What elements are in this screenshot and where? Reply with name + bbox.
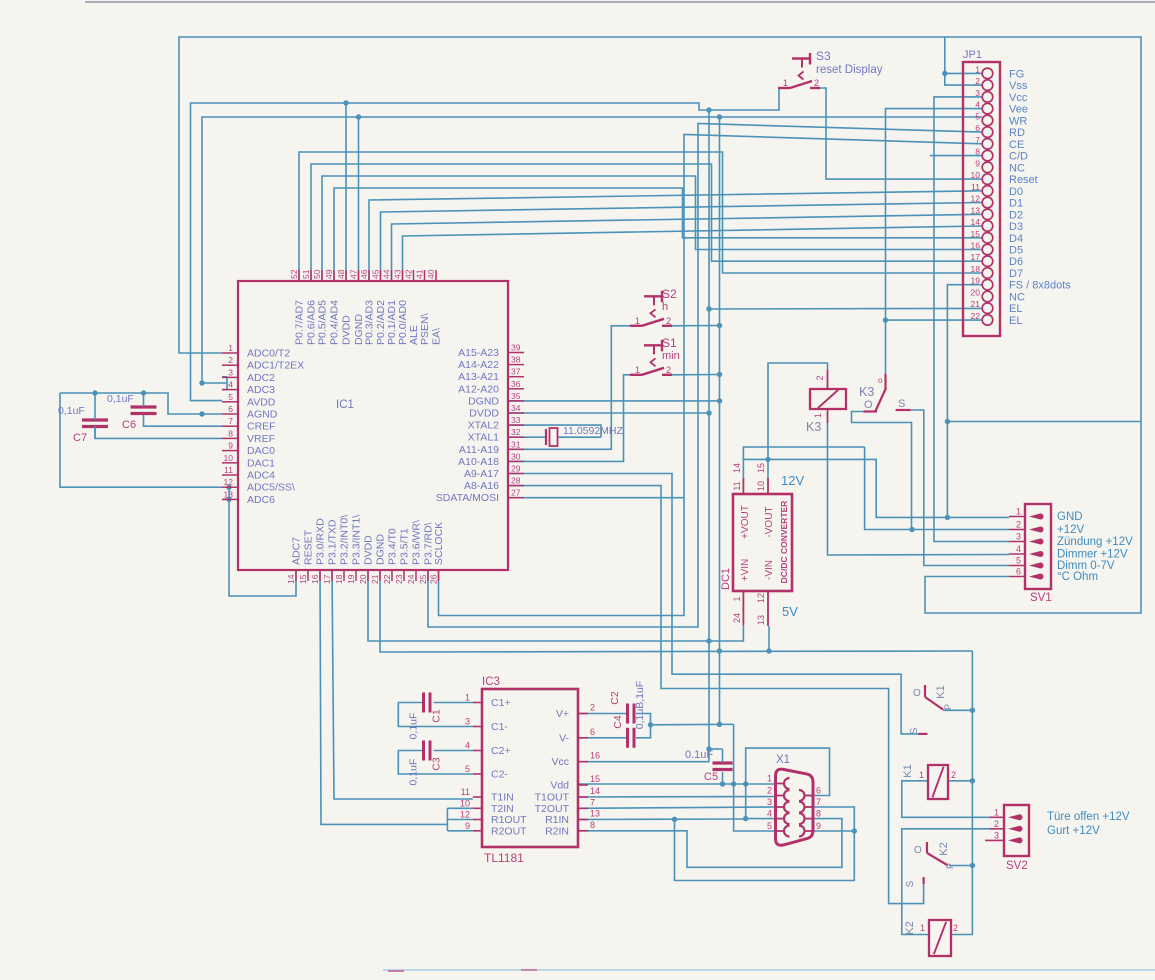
wire D1 net: IC1 riser x380.5 rail to JP1 pin12: [381, 203, 983, 282]
IC1 pin 33 stub: [508, 424, 524, 426]
switch S3 pin1 terminal: [778, 87, 790, 89]
svg-text:Vss: Vss: [1009, 80, 1028, 92]
wire C3 loop: pin4 line, cap, left loop to pin5 line: [434, 750, 473, 752]
wire outer U: X1 pin7 right, down x854.3, left y880.5, up x674.5 to pin13 line: [675, 807, 855, 881]
svg-text:2: 2: [666, 316, 671, 326]
svg-text:P3.6/WR\: P3.6/WR\: [411, 520, 423, 565]
svg-text:6: 6: [1016, 567, 1021, 577]
svg-text:47: 47: [349, 269, 359, 279]
JP1 pin 18 circle: [982, 268, 993, 279]
IC1 pin 34 stub: [508, 412, 524, 414]
svg-text:42: 42: [404, 269, 414, 279]
svg-text:2: 2: [953, 923, 958, 933]
svg-text:0,1uF: 0,1uF: [107, 393, 134, 405]
IC3 pin 15 stub: [578, 784, 588, 786]
svg-text:17: 17: [322, 574, 332, 584]
svg-text:29: 29: [511, 464, 521, 474]
svg-text:S3: S3: [816, 49, 831, 63]
relay coil K3 body: [810, 389, 846, 409]
svg-text:38: 38: [511, 355, 521, 365]
svg-text:3: 3: [994, 830, 999, 840]
svg-text:RESET: RESET: [303, 529, 315, 565]
junction dot DGND rail top of DGND vertical: [717, 114, 722, 119]
IC3 pin 5 stub: [473, 773, 482, 775]
svg-text:Türe offen +12V: Türe offen +12V: [1047, 811, 1130, 823]
wire D7 net: IC1 pin52 riser, rail y152, down x722.5, to JP1 pin18: [299, 152, 982, 281]
svg-text:IC1: IC1: [336, 399, 354, 411]
svg-text:RD: RD: [1009, 127, 1025, 139]
relay contact K1 S tick: [919, 733, 928, 735]
relay coil K2 body: [929, 920, 951, 956]
svg-text:C1: C1: [431, 709, 443, 723]
switch S1 plunger stem: [653, 345, 655, 354]
svg-text:33: 33: [511, 415, 521, 425]
wire K1S net: IC1 pin29 line right, down x=672, across y674, down to K1 S terminal: [508, 474, 919, 734]
svg-text:D5: D5: [1009, 245, 1023, 257]
wire S1 pin2 line to DGND vertical: [672, 374, 720, 376]
relay coil K1 body: [928, 765, 948, 799]
IC1 pin 28 stub: [508, 485, 524, 487]
svg-text:2: 2: [666, 365, 671, 375]
svg-text:Gurt +12V: Gurt +12V: [1047, 825, 1100, 837]
IC1 pin 40 top stub: [435, 270, 437, 281]
IC1 pin 4 stub: [222, 389, 238, 391]
svg-text:46: 46: [359, 269, 369, 279]
IC1 pin 46 top stub: [368, 270, 370, 281]
svg-text:Vcc: Vcc: [1009, 92, 1028, 104]
junction dot DGND x IC1 pin35 DGND line: [717, 398, 722, 403]
X1 pin 2 arc: [784, 790, 790, 801]
wire GND line y459: from x744 right to x876.2, down to SV1 pin1 line: [744, 459, 1009, 517]
svg-text:V-: V-: [559, 732, 569, 744]
svg-text:5V: 5V: [782, 604, 798, 619]
X1 pin 3 arc: [784, 802, 790, 813]
svg-text:14: 14: [590, 786, 600, 796]
svg-text:VREF: VREF: [247, 433, 275, 445]
svg-text:40: 40: [426, 269, 436, 279]
junction dot pin13 line x outer U vertical: [672, 817, 677, 822]
svg-text:4: 4: [228, 380, 233, 390]
IC1 pin 22 bottom stub: [391, 570, 393, 581]
svg-text:JP1: JP1: [963, 49, 982, 61]
svg-text:C5: C5: [704, 771, 718, 783]
wire IC3 input bracket x447.4 joining pins 10 12 9: [446, 808, 448, 831]
svg-text:21: 21: [971, 299, 981, 309]
svg-text:T1OUT: T1OUT: [535, 792, 570, 804]
IC1 pin 19 bottom stub: [355, 570, 357, 581]
junction dot AGND line x DGND left vertical: [199, 411, 204, 416]
svg-text:2: 2: [767, 786, 772, 796]
svg-text:P3.3/INT1\: P3.3/INT1\: [351, 515, 363, 565]
wire SV2 pin2 line left, down x901.8 to K2 coil pin1, branch to K2 S: [902, 829, 990, 935]
svg-text:CE: CE: [1009, 139, 1024, 151]
svg-text:28: 28: [511, 476, 521, 486]
svg-text:Reset: Reset: [1009, 174, 1038, 186]
X1 pin 5 arc: [784, 826, 790, 837]
junction dot FS vertical x spur line y421.5: [945, 419, 950, 424]
IC3 pin 2 stub: [578, 713, 588, 715]
svg-text:ADC2: ADC2: [247, 372, 275, 384]
IC1 pin 37 stub: [508, 376, 524, 378]
svg-text:1: 1: [920, 923, 925, 933]
svg-text:+VIN: +VIN: [740, 559, 751, 582]
wire K3 contact S wire: right, down x=923.8 to SV1 pin5 Dimm line: [911, 410, 1009, 566]
svg-text:37: 37: [511, 367, 521, 377]
svg-text:S: S: [905, 880, 916, 887]
IC1 pin 36 stub: [508, 388, 524, 390]
svg-text:K2: K2: [938, 842, 950, 855]
wire K3 coil pin1 down x827.5 then right y555 to SV1 pin4 Dimmer line: [828, 423, 1010, 555]
JP1 pin 6 circle: [982, 127, 993, 138]
IC1 pin 13 stub: [222, 498, 238, 500]
switch S3 plunger stem: [801, 59, 803, 68]
IC1 pin 44 top stub: [391, 270, 393, 281]
svg-text:T2IN: T2IN: [491, 803, 514, 815]
IC3 pin 7 stub: [578, 807, 588, 809]
svg-text:3: 3: [767, 797, 772, 807]
svg-text:D7: D7: [1009, 268, 1023, 280]
svg-text:S: S: [898, 398, 905, 410]
wire C1 loop: IC1 pin1 line, cap, left loop to pin3 line: [434, 702, 473, 704]
wire C2C4 common line y724.3 right to corner x733.6: [651, 723, 734, 726]
IC1 pin 47 top stub: [358, 270, 360, 281]
svg-text:2: 2: [951, 770, 956, 780]
svg-text:8: 8: [228, 428, 233, 438]
switch S1 plunger cap: [644, 344, 662, 346]
svg-text:1: 1: [635, 365, 640, 375]
X1 pin 1 lead: [776, 783, 784, 785]
SV1 pin 3 stub: [1009, 541, 1026, 543]
svg-text:+VOUT: +VOUT: [740, 505, 751, 539]
wire DC1 pins15/10 stub teal part: [767, 459, 769, 478]
JP1 pin 1 circle: [982, 68, 993, 79]
svg-text:15: 15: [590, 774, 600, 784]
wire vertical x229 from pin12 line to pin14 ADC7 loop: [229, 487, 296, 596]
wire DGND line y=651: IC1 pin21 down then right to corner x=972.4: [380, 570, 972, 652]
IC3 pin 13 stub: [578, 819, 588, 821]
wire DVDD line y=640: IC1 pin20 down then right to DC1 pins 1/24 stub: [368, 570, 743, 641]
svg-text:C3: C3: [431, 757, 443, 771]
IC1 pin 11 stub: [222, 474, 238, 476]
junction dot C2C4 midpoint: [648, 722, 653, 727]
svg-text:10: 10: [971, 170, 981, 180]
svg-text:13: 13: [224, 489, 234, 499]
svg-text:D2: D2: [1009, 209, 1023, 221]
switch S1 chevron: [651, 358, 656, 366]
wire RD net: JP1 pin6 line left, down x=698 to IC1 pin25 P3.7/RD line: [428, 124, 982, 628]
wire D2 net: IC1 riser x391.5 rail to JP1 pin13: [392, 214, 983, 281]
svg-text:26: 26: [429, 574, 439, 584]
wire AGND rail above C6 C7 y=393: [60, 393, 222, 414]
IC1 pin 9 stub: [222, 450, 238, 452]
svg-text:K1: K1: [902, 764, 914, 777]
svg-text:A15-A23: A15-A23: [458, 347, 499, 359]
wire K3 contact O wire: left, down, right, down x911.5 to +12V SV1 pin2 line: [852, 412, 912, 530]
svg-text:24: 24: [406, 574, 416, 584]
JP1 pin 19 circle: [982, 279, 993, 290]
svg-text:0,1uF: 0,1uF: [408, 759, 420, 786]
wire JP1 pin1 FG stub: [945, 72, 982, 74]
svg-text:2: 2: [1016, 520, 1021, 530]
svg-text:14: 14: [286, 574, 296, 584]
svg-text:EL: EL: [1009, 315, 1022, 327]
svg-text:DGND: DGND: [468, 395, 499, 407]
svg-text:C/D: C/D: [1009, 151, 1028, 163]
switch S2 plunger stem: [653, 296, 655, 305]
svg-text:31: 31: [511, 439, 521, 449]
SV2 pin 3 stub: [985, 839, 1005, 841]
junction dot GND459 x DC1 pins15/10 riser: [765, 457, 770, 462]
wire IC1 pin47 DGND riser to DGND rail: [358, 117, 360, 281]
wire C5 jog from DVDD vertical to C5 top stem: [709, 748, 723, 750]
svg-text:4: 4: [975, 100, 980, 110]
IC3 pin 3 stub: [473, 726, 482, 728]
switch S1 arm: [642, 368, 664, 375]
junction dot X1 pin9 x outer U: [852, 828, 857, 833]
svg-text:44: 44: [382, 269, 392, 279]
switch S2 pin2 terminal: [662, 325, 672, 327]
svg-text:DAC1: DAC1: [247, 457, 275, 469]
svg-text:ADC5/SS\: ADC5/SS\: [247, 482, 295, 494]
SV2 pin 1 wedge: [1008, 814, 1022, 820]
svg-text:+12V: +12V: [1057, 524, 1085, 536]
IC1 pin 2 stub: [222, 364, 238, 366]
svg-text:0,1uF: 0,1uF: [58, 405, 85, 417]
switch S1 pin2 terminal: [662, 374, 672, 376]
svg-text:D6: D6: [1009, 256, 1023, 268]
junction dot DVDD x C5 jog: [706, 746, 711, 751]
svg-text:32: 32: [511, 427, 521, 437]
svg-text:AGND: AGND: [247, 409, 278, 421]
JP1 pin 7 circle: [982, 139, 993, 150]
relay coil K1 diagonal: [932, 767, 943, 798]
switch S3 chevron: [799, 72, 804, 80]
svg-text:52: 52: [289, 269, 299, 279]
svg-text:R2OUT: R2OUT: [491, 825, 527, 837]
svg-text:19: 19: [346, 574, 356, 584]
svg-text:K2: K2: [904, 921, 916, 934]
capacitor C7 plates: [82, 418, 108, 421]
wire top rail / border loop: IC1 pin1 ADC0 up, across top, down right side to SV1 pin6: [179, 37, 1141, 613]
svg-text:13: 13: [590, 809, 600, 819]
junction dot bus x C5 stem: [720, 781, 725, 786]
svg-text:35: 35: [511, 391, 521, 401]
svg-text:DGND: DGND: [375, 534, 387, 565]
wire DGND vertical net x=719.5 from rail y117 down to C2/C4 common line: [719, 117, 721, 724]
wire C5 bottom stem to Vdd bus: [722, 772, 724, 784]
capacitor C2 plates: [626, 704, 629, 724]
JP1 pin 22 circle: [982, 315, 993, 326]
switch S3 pin2 terminal: [810, 87, 820, 89]
svg-text:41: 41: [415, 269, 425, 279]
svg-text:O: O: [914, 845, 922, 856]
IC3 pin 14 stub: [578, 796, 588, 798]
JP1 pin 3 circle: [982, 92, 993, 103]
IC3 pin 1 stub: [473, 702, 482, 704]
SV2 pin 2 wedge: [1008, 826, 1022, 832]
X1 pin 8 lead: [805, 818, 814, 820]
svg-text:10: 10: [224, 453, 234, 463]
relay contact K2 O tick: [926, 842, 928, 853]
wire EL supply line y=309: from DVDD vertical across to JP1 pin21: [709, 307, 982, 310]
svg-text:K3: K3: [806, 420, 821, 434]
svg-text:DVDD: DVDD: [341, 315, 353, 345]
svg-text:9: 9: [465, 821, 470, 831]
wire D5 net: IC1 pin50 riser, rail y176, down x695.5, to JP1 pin16: [322, 176, 982, 281]
wire IC1 pin34 DVDD line to DVDD vertical: [508, 412, 709, 414]
svg-text:DC/DC CONVERTER: DC/DC CONVERTER: [779, 501, 789, 584]
svg-text:C1-: C1-: [491, 721, 508, 733]
junction dot pin12 line x vertical x229: [226, 485, 231, 490]
svg-text:Zündung +12V: Zündung +12V: [1057, 536, 1133, 548]
switch S2 chevron: [651, 309, 656, 317]
svg-text:1: 1: [732, 596, 742, 601]
svg-text:C2: C2: [609, 691, 621, 705]
svg-text:20: 20: [358, 574, 368, 584]
svg-text:reset Display: reset Display: [816, 64, 883, 76]
X1 pin 1 arc: [784, 778, 790, 789]
wire IC1 pins3-4 bracket and line to DGND vertical: [202, 382, 227, 384]
svg-text:2: 2: [994, 819, 999, 829]
svg-text:1: 1: [783, 78, 788, 88]
svg-text:4: 4: [1016, 544, 1021, 554]
switch S2 arm: [642, 319, 664, 326]
IC1 pin 52 top stub: [298, 270, 300, 281]
IC3 pin 11 stub: [473, 796, 482, 798]
svg-text:12: 12: [224, 477, 234, 487]
wire K1 coil pin1 left, down x901.8, right to SV2 pin1: [902, 781, 990, 818]
IC1 pin 39 stub: [508, 352, 524, 354]
svg-text:17: 17: [971, 252, 981, 262]
connector X1 DB9 shell: [776, 769, 814, 845]
SV1 pin 4 stub: [1009, 553, 1026, 555]
wire D6 net: IC1 pin51 riser, rail y164, down x711.5, to JP1 pin17: [311, 164, 982, 281]
svg-text:14: 14: [971, 217, 981, 227]
switch S3 arm: [790, 81, 812, 88]
wire CE net: JP1 pin7 line left, down x=684 to IC1 pin26 SCLOCK line: [439, 135, 983, 616]
svg-text:P0.4/AD4: P0.4/AD4: [329, 300, 341, 345]
junction dot DVDD x EL line: [706, 306, 711, 311]
svg-text:12: 12: [756, 593, 766, 603]
svg-text:5: 5: [1016, 556, 1021, 566]
IC1 pin 16 bottom stub: [319, 570, 321, 581]
svg-text:S2: S2: [662, 287, 677, 301]
svg-text:°C Ohm: °C Ohm: [1057, 571, 1098, 583]
wire +12V line y447: DC1 pins11/14 stub up, right to x=864.6: [743, 447, 864, 480]
svg-text:1: 1: [635, 316, 640, 326]
connector SV1 body: [1025, 504, 1051, 589]
X1 pin 4 lead: [776, 818, 784, 820]
relay contact K1 arm: [925, 697, 943, 710]
svg-text:3: 3: [228, 367, 233, 377]
svg-text:A12-A20: A12-A20: [458, 383, 499, 395]
IC1 pin 1 stub: [222, 352, 238, 354]
wire Vcc net: JP1 pin3 left, down x=934 to SV1 pin3 Zündung: [934, 97, 1009, 542]
svg-text:10: 10: [756, 481, 766, 491]
svg-text:P0.5/AD5: P0.5/AD5: [317, 300, 329, 345]
wire crystal right lead: [558, 436, 601, 438]
svg-text:DVDD: DVDD: [469, 408, 499, 420]
X1 pin 4 arc: [784, 813, 790, 824]
svg-text:7: 7: [975, 135, 980, 145]
SV2 pin 2 stub: [990, 828, 1005, 830]
junction dot AVDD jog x DVDD vertical top: [706, 107, 711, 112]
svg-text:24: 24: [732, 613, 742, 623]
svg-text:P3.1/TXD: P3.1/TXD: [327, 519, 339, 565]
junction dot C6 top: [141, 390, 146, 395]
wire IC3 pin2 V+ line to C2: [578, 713, 628, 715]
svg-text:TL1181: TL1181: [484, 851, 524, 865]
svg-text:13: 13: [971, 205, 981, 215]
JP1 pin 5 circle: [982, 115, 993, 126]
wire IC3 pin9 stub line: [447, 830, 472, 832]
svg-text:6: 6: [590, 727, 595, 737]
wire K2 contact P to common vertical: [949, 865, 972, 867]
svg-text:18: 18: [971, 264, 981, 274]
SV1 pin 2 stub: [1009, 529, 1026, 531]
svg-text:3: 3: [1016, 532, 1021, 542]
junction dot pin13 line on vertical x229: [226, 497, 231, 502]
svg-text:6: 6: [228, 404, 233, 414]
JP1 pin 9 circle: [982, 162, 993, 173]
svg-text:C7: C7: [73, 432, 87, 444]
wire JP1 pin8 C/D short line: [930, 155, 982, 157]
svg-text:P: P: [943, 704, 953, 710]
IC1 pin 10 stub: [222, 462, 238, 464]
svg-text:4: 4: [767, 809, 772, 819]
svg-text:12: 12: [971, 194, 981, 204]
wire SDATA net: IC1 pin27 line right to CE vertical: [508, 497, 684, 499]
svg-text:NC: NC: [1009, 162, 1025, 174]
svg-text:P0.3/AD3: P0.3/AD3: [364, 300, 376, 345]
wire XTAL1 line: IC1 pin32 to crystal left: [508, 436, 546, 438]
relay contact K2 S tick: [922, 877, 924, 884]
IC3 pin 4 stub: [473, 750, 482, 752]
svg-text:P0.7/AD7: P0.7/AD7: [294, 300, 306, 345]
svg-text:DC1: DC1: [720, 568, 732, 590]
junction dot AVDD x pin48 DVDD riser: [343, 100, 348, 105]
scan edge line top: [85, 1, 1155, 3]
svg-text:ADC6: ADC6: [247, 494, 275, 506]
JP1 pin 2 circle: [982, 80, 993, 91]
svg-text:7: 7: [816, 797, 821, 807]
junction dot pin13 line x pin4 vertical: [743, 816, 748, 821]
relay coil K3 diagonal: [818, 390, 838, 408]
connector JP1 body: [963, 62, 1000, 336]
svg-text:9: 9: [975, 158, 980, 168]
IC3 pin 6 stub: [578, 737, 588, 739]
wire X1 pin9 stub to outer U vertical: [812, 830, 854, 832]
capacitor C4 plates: [626, 728, 629, 748]
IC1 pin 20 bottom stub: [367, 570, 369, 581]
wire K1 contact P to common vertical: [943, 709, 972, 711]
svg-text:A13-A21: A13-A21: [458, 371, 499, 383]
svg-text:0,1uB,1uF: 0,1uB,1uF: [634, 681, 646, 729]
X1 pin 2 lead: [776, 795, 784, 797]
junction dot K1 contact P: [970, 708, 975, 713]
wire Vee net: JP1 pin4 left, down x=885.5 to K3 contact common: [886, 109, 983, 374]
svg-text:-VOUT: -VOUT: [764, 506, 775, 537]
svg-text:23: 23: [394, 574, 404, 584]
junction dot FG line: [942, 71, 947, 76]
wire relay common vertical x=972.4 down to K2 coil pin2: [951, 651, 972, 935]
svg-text:11: 11: [461, 787, 470, 797]
IC1 pin 21 bottom stub: [379, 570, 381, 581]
X1 pin 3 lead: [776, 806, 784, 808]
relay coil K3 pin2 stub: [827, 370, 829, 389]
svg-text:5: 5: [228, 392, 233, 402]
svg-text:SV1: SV1: [1030, 592, 1052, 604]
